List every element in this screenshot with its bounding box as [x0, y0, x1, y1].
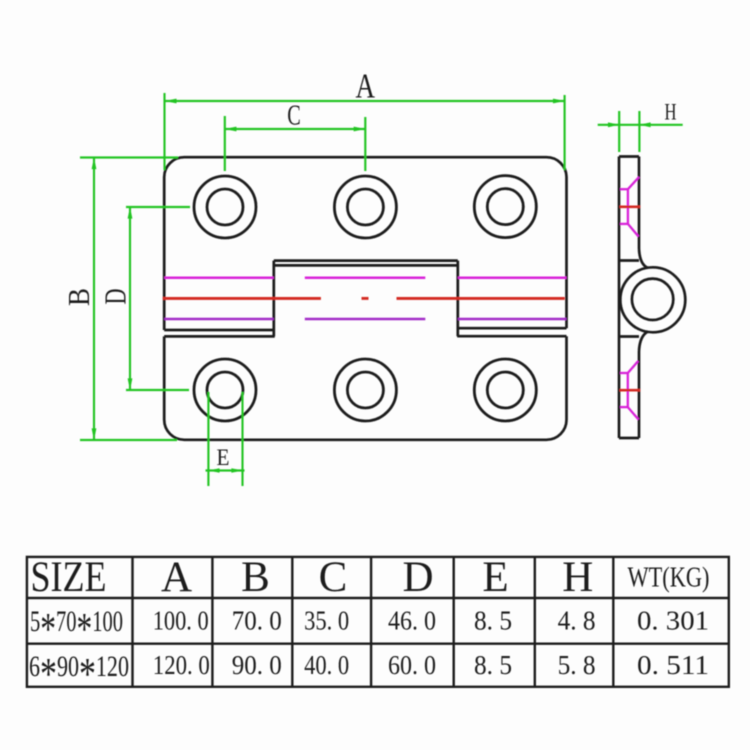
side view plate right edge lower	[638, 351, 641, 438]
arrow D bottom	[128, 378, 133, 390]
hole bottom-left inner	[207, 372, 243, 408]
dimension B extension line bottom	[80, 439, 177, 441]
side view barrel outer circle	[620, 267, 685, 332]
svg-text:4. 8: 4. 8	[558, 605, 596, 636]
hole bottom-mid outer	[334, 359, 396, 421]
dimension E extension line right	[241, 392, 243, 486]
arrow E right	[231, 468, 242, 473]
dimension D extension line bottom	[126, 389, 189, 391]
hole top-left inner	[207, 189, 243, 225]
dimension E line	[206, 469, 245, 471]
svg-text:SIZE: SIZE	[31, 554, 107, 601]
svg-text:8. 5: 8. 5	[474, 649, 512, 680]
svg-text:0. 301: 0. 301	[637, 605, 709, 636]
center knuckle left edge	[272, 261, 275, 337]
side view plate right edge upper	[638, 157, 641, 250]
svg-text:35. 0: 35. 0	[304, 605, 349, 636]
bottom leaf top edge left	[164, 335, 275, 338]
arrowheads green	[92, 99, 651, 473]
dimension A line	[165, 100, 565, 102]
svg-text:WT(KG): WT(KG)	[628, 563, 710, 594]
red center line	[163, 297, 565, 300]
arrow H right	[639, 122, 650, 127]
countersink upper red center	[619, 205, 640, 208]
dimension C line	[225, 128, 365, 130]
svg-text:5*70*100: 5*70*100	[30, 603, 123, 654]
svg-text:8. 5: 8. 5	[474, 605, 512, 636]
dimension H extension line right	[638, 111, 640, 152]
countersink lower magenta	[620, 361, 639, 420]
arrow E left	[208, 468, 219, 473]
hinge front view: bottom leaf outline	[164, 336, 566, 440]
countersink lower red center	[619, 389, 640, 392]
hole bottom-mid inner	[347, 372, 383, 408]
svg-text:C: C	[319, 554, 348, 601]
arrow C right	[354, 127, 366, 132]
side view fillet bottom	[639, 332, 648, 352]
svg-text:90. 0: 90. 0	[232, 649, 282, 680]
side view plate left edge	[619, 157, 685, 439]
hinge front view: top leaf outline	[164, 157, 566, 330]
svg-text:H: H	[562, 554, 593, 601]
arrow B top	[92, 158, 97, 170]
hole top-mid inner	[347, 189, 383, 225]
dimension A extension line right	[564, 95, 566, 170]
svg-text:B: B	[241, 554, 270, 601]
side view plate bottom edge	[619, 437, 639, 440]
magenta phantom line upper	[164, 277, 566, 280]
dimension D extension line top	[126, 206, 190, 208]
center knuckle right edge	[456, 261, 459, 337]
hole top-mid outer	[334, 176, 396, 238]
side view knuckle band bottom	[619, 335, 639, 338]
svg-text:120. 0: 120. 0	[153, 649, 210, 680]
svg-text:D: D	[402, 554, 433, 601]
purple phantom line lower	[164, 318, 566, 321]
hole bottom-right inner	[487, 372, 523, 408]
dimension C extension line left	[224, 116, 226, 171]
svg-text:5. 8: 5. 8	[558, 649, 596, 680]
svg-text:C: C	[287, 100, 301, 132]
svg-text:D: D	[97, 289, 132, 305]
svg-text:A: A	[161, 554, 192, 601]
side view pin hole circle	[632, 279, 673, 320]
hole bottom-left outer	[194, 359, 256, 421]
side view plate top edge	[619, 155, 639, 158]
hole top-right inner	[487, 189, 523, 225]
bottom leaf top edge right	[457, 335, 566, 338]
arrow D top	[128, 207, 133, 219]
svg-text:46. 0: 46. 0	[388, 605, 436, 636]
arrow A right	[553, 99, 565, 104]
svg-text:E: E	[217, 445, 230, 470]
hole top-left outer	[194, 176, 256, 238]
top leaf bottom edge right	[458, 327, 567, 330]
dimension A extension line left	[80, 93, 683, 486]
table grid	[27, 557, 729, 687]
arrow H left	[608, 122, 619, 127]
svg-text:0. 511: 0. 511	[637, 649, 709, 680]
svg-text:H: H	[665, 100, 677, 126]
countersink upper magenta	[620, 177, 639, 237]
svg-text:A: A	[355, 67, 375, 106]
arrow A left	[165, 99, 177, 104]
dimension H extension line left	[618, 111, 620, 152]
svg-text:100. 0: 100. 0	[153, 605, 209, 636]
center knuckle top seam line	[274, 264, 458, 267]
svg-text:40. 0: 40. 0	[304, 649, 349, 680]
hole bottom-right outer	[474, 359, 536, 421]
side view knuckle band top	[619, 259, 639, 262]
dimension C extension line right	[364, 117, 366, 171]
arrow C left	[225, 127, 237, 132]
arrow B bottom	[92, 428, 97, 440]
hole top-right outer	[474, 176, 536, 238]
dimension H line	[598, 124, 683, 126]
dimension D line	[129, 207, 131, 390]
svg-text:B: B	[61, 288, 96, 306]
side view fillet top	[639, 249, 648, 268]
center knuckle top outer line	[274, 259, 458, 262]
dimension B extension line top	[80, 156, 178, 158]
svg-text:70. 0: 70. 0	[232, 605, 282, 636]
svg-text:60. 0: 60. 0	[388, 649, 436, 680]
svg-text:E: E	[482, 554, 508, 601]
dimension E extension line left	[207, 392, 209, 486]
svg-text:6*90*120: 6*90*120	[29, 648, 129, 699]
dimension B line	[93, 158, 95, 441]
top leaf bottom edge left	[164, 329, 274, 332]
